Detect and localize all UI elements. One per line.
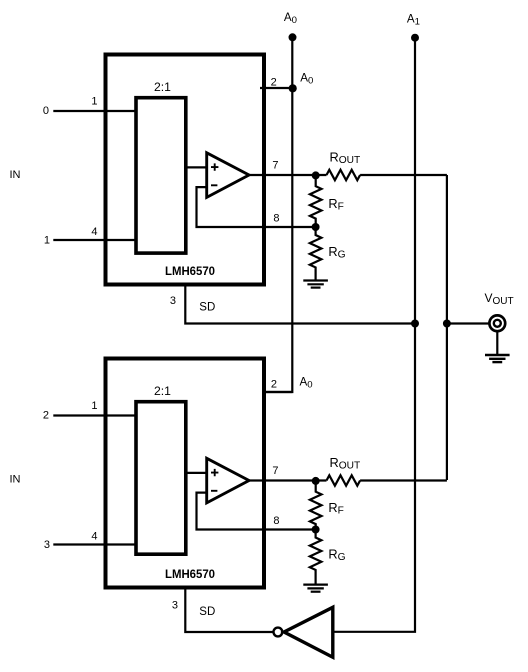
wire mux output to op-amp + input	[186, 472, 207, 474]
wire join rail to VOUT connector	[447, 322, 490, 324]
plus sign at op-amp input	[211, 163, 218, 170]
resistor ROUT	[327, 475, 361, 485]
net A0 vertical rail	[262, 37, 292, 392]
wire pin 2 of U2 from A0 rail corner	[262, 391, 292, 393]
wire VOUT connector to ground	[496, 331, 498, 355]
svg-text:SD: SD	[199, 302, 215, 314]
svg-text:SD: SD	[199, 606, 215, 618]
wire input 2 to pin 1	[53, 414, 136, 416]
wire ROUT to output join rail	[360, 174, 447, 176]
svg-text:4: 4	[91, 531, 97, 543]
node pin2/A0 junction dot	[289, 84, 297, 92]
feedback wire from op-amp inverting input to pin 8	[197, 187, 316, 227]
connector VOUT outer circle	[489, 315, 505, 331]
inverter bubble	[274, 628, 283, 637]
svg-text:0: 0	[43, 105, 49, 117]
wire mux output to op-amp + input	[186, 166, 207, 168]
svg-text:1: 1	[91, 96, 97, 108]
svg-text:2: 2	[43, 410, 49, 422]
ground below RG	[303, 281, 328, 288]
svg-text:IN: IN	[10, 474, 21, 486]
output join rail x=447	[446, 175, 448, 480]
resistor RG	[310, 530, 322, 585]
node pin8 junction dot	[312, 223, 320, 231]
svg-text:1: 1	[91, 400, 97, 412]
svg-text:LMH6570: LMH6570	[165, 264, 215, 278]
wire input 1 to pin 4	[53, 239, 136, 241]
net A1 vertical rail	[334, 38, 415, 632]
wire pin 2 of U1 to A0 rail	[260, 87, 292, 89]
resistor RF	[310, 481, 322, 530]
svg-text:4: 4	[91, 226, 97, 238]
inverter triangle	[284, 607, 333, 657]
svg-text:2: 2	[271, 77, 277, 89]
svg-text:2: 2	[271, 378, 277, 390]
resistor RG	[310, 227, 322, 280]
node pin8 junction dot	[312, 526, 320, 534]
node pin7 junction dot	[312, 477, 320, 485]
wire ROUT to output join rail	[360, 479, 447, 481]
mux block inside U2	[136, 402, 186, 555]
node output junction dot on join rail	[443, 320, 451, 328]
minus sign at op-amp input	[211, 184, 217, 186]
ground below RG	[303, 585, 328, 592]
minus sign at op-amp input	[211, 490, 217, 492]
svg-text:2:1: 2:1	[154, 80, 171, 94]
op-amp triangle U2	[207, 458, 249, 503]
wire SD pin 3 of U2 to inverter	[185, 589, 273, 632]
wire op-amp output pin 7	[247, 174, 327, 176]
wire input 3 to pin 4	[53, 543, 136, 545]
node pin7 junction dot	[312, 171, 320, 179]
feedback wire from op-amp inverting input to pin 8	[197, 493, 316, 530]
svg-text:7: 7	[272, 160, 278, 172]
svg-text:3: 3	[172, 600, 178, 612]
plus sign at op-amp input	[211, 469, 218, 476]
wire input 0 to pin 1	[53, 110, 136, 112]
svg-text:1: 1	[44, 235, 50, 247]
connector VOUT inner circle	[494, 320, 501, 327]
svg-text:2:1: 2:1	[154, 384, 171, 398]
mux block inside U1	[136, 98, 186, 253]
svg-text:7: 7	[272, 465, 278, 477]
node SD/A1 junction dot	[411, 320, 419, 328]
op-amp triangle U1	[207, 153, 249, 198]
svg-text:3: 3	[170, 295, 176, 307]
svg-text:8: 8	[273, 515, 279, 527]
svg-text:3: 3	[44, 539, 50, 551]
svg-text:IN: IN	[10, 169, 21, 181]
op-amp chip U1 outer box	[106, 55, 265, 285]
ground below VOUT connector	[485, 355, 510, 362]
resistor ROUT	[327, 170, 361, 180]
svg-text:LMH6570: LMH6570	[165, 567, 215, 581]
resistor RF	[310, 175, 322, 227]
node A0 top terminal dot	[289, 33, 297, 41]
node A1 top terminal dot	[411, 34, 419, 42]
wire op-amp output pin 7	[247, 479, 327, 481]
svg-text:8: 8	[273, 213, 279, 225]
wire SD pin 3 of U1 to A1	[185, 286, 415, 324]
op-amp chip U2 outer box	[106, 359, 265, 588]
